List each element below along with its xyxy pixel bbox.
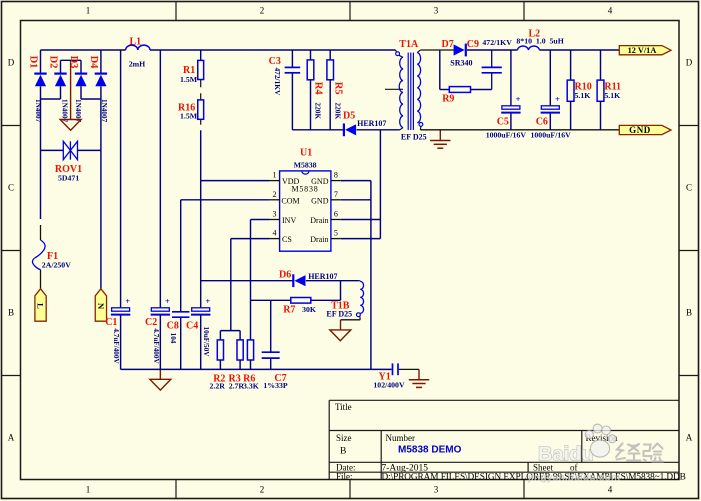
ROV1 value 5D471 [58, 173, 79, 182]
Y1 value 102/400V [373, 380, 405, 389]
wire VDD column to C4 [200, 181, 202, 308]
D2 label [48, 56, 59, 69]
svg-text:5.1K: 5.1K [575, 91, 591, 100]
R7 value 30K [302, 305, 316, 314]
R1 value 1.5M [180, 75, 198, 84]
U1 pin names and part number [281, 177, 328, 244]
R10 value 5.1K [575, 91, 591, 100]
svg-text:C2: C2 [145, 317, 157, 328]
wire secondary top bus [420, 49, 619, 51]
resistor R10 [567, 50, 574, 130]
svg-text:A: A [686, 433, 693, 443]
svg-text:2: 2 [260, 6, 265, 16]
svg-text:D5: D5 [343, 111, 355, 122]
svg-text:2mH: 2mH [129, 59, 145, 68]
D1 value 1N4007 [34, 99, 42, 123]
T1A label [399, 39, 419, 50]
watermark Baidu Jingyan [538, 424, 663, 465]
D3 value 1N4007 [74, 99, 82, 123]
R3 label [229, 374, 241, 385]
U1 pin numbers [273, 171, 338, 238]
C4 value [202, 327, 210, 358]
capacitor C2 [151, 296, 170, 314]
watermark jingyan url [527, 472, 620, 484]
port GND [619, 125, 671, 135]
svg-text:R4: R4 [313, 82, 324, 96]
svg-text:T1A: T1A [399, 39, 419, 50]
svg-text:C5: C5 [497, 116, 509, 127]
svg-text:INV: INV [282, 216, 296, 225]
svg-text:472/1KV: 472/1KV [482, 38, 512, 47]
svg-text:3: 3 [434, 485, 439, 495]
U1 comment M5838 [294, 161, 317, 170]
svg-text:+: + [125, 296, 130, 306]
svg-text:D: D [686, 58, 693, 68]
svg-text:2: 2 [260, 485, 265, 495]
F1 label [47, 251, 58, 262]
R6 label [243, 374, 255, 385]
svg-text:1: 1 [86, 485, 91, 495]
inductor L2 [518, 46, 540, 50]
diode D3 [75, 60, 87, 86]
wire R9 drop [440, 50, 450, 90]
wire CS column [230, 239, 232, 331]
wire C7 column [270, 300, 272, 369]
title block texts [335, 402, 686, 483]
svg-text:GND: GND [311, 196, 329, 205]
D3 label [68, 56, 79, 69]
svg-text:HER107: HER107 [357, 119, 386, 128]
wire R1-R16 link [200, 80, 202, 100]
svg-text:B: B [8, 308, 14, 318]
resistor R5 [327, 50, 334, 130]
svg-text:D1: D1 [28, 56, 39, 69]
svg-text:3: 3 [273, 210, 277, 219]
svg-text:D7: D7 [442, 39, 454, 50]
R4 value 220K [313, 102, 322, 119]
svg-text:M5838 DEMO: M5838 DEMO [398, 445, 462, 456]
capacitor Y1 [393, 363, 399, 375]
L1 value 2mH [129, 59, 145, 68]
svg-text:4.7uF/400V: 4.7uF/400V [152, 328, 160, 364]
svg-text:D: D [8, 58, 15, 68]
svg-text:5.1K: 5.1K [604, 91, 620, 100]
wire C3 column [291, 50, 293, 130]
svg-text:8*10 1.0 5uH: 8*10 1.0 5uH [516, 37, 563, 46]
svg-text:C1: C1 [105, 317, 117, 328]
svg-text:HER107: HER107 [308, 272, 337, 281]
U1 label [300, 148, 312, 159]
wire GND pins 8,7 [341, 181, 371, 200]
port L [35, 289, 46, 321]
wire D2-D3 top [61, 59, 82, 61]
svg-text:1%33P: 1%33P [263, 381, 287, 390]
svg-text:L: L [36, 303, 46, 309]
wire Y1 to earth [399, 368, 419, 370]
resistor R2 [217, 340, 223, 370]
wire VDD pin1 [201, 180, 270, 182]
svg-text:C3: C3 [269, 56, 281, 67]
D7 value SR340 [450, 59, 472, 68]
wire R2 R3 top jog [220, 331, 240, 340]
R9 label [442, 93, 454, 104]
svg-text:1: 1 [86, 6, 91, 16]
resistor R1 [198, 50, 204, 80]
ROV1 label [55, 164, 82, 175]
svg-text:CS: CS [282, 235, 292, 244]
R16 label [178, 102, 195, 113]
wire COM pin2 [181, 199, 270, 201]
C6 value [531, 131, 572, 140]
R6 value 3.3K [243, 382, 259, 391]
svg-text:B: B [686, 308, 692, 318]
svg-text:+: + [516, 94, 521, 104]
port N [95, 289, 106, 321]
D2 value 1N4007 [60, 99, 68, 123]
svg-text:1.5M: 1.5M [180, 75, 198, 84]
R3 value 2.7R [229, 382, 245, 391]
D4 value 1N4007 [100, 99, 108, 123]
svg-text:Size: Size [336, 433, 352, 443]
R11 value 5.1K [604, 91, 620, 100]
wire D6 node to R7 [311, 281, 341, 301]
svg-text:COM: COM [281, 196, 299, 205]
port 12V/1A [619, 46, 671, 55]
wire INV column [250, 220, 252, 340]
svg-text:Number: Number [386, 433, 416, 443]
wire R16 to VDD node [200, 119, 202, 180]
svg-text:C8: C8 [167, 321, 179, 332]
capacitor C9 [482, 50, 502, 90]
L2 value [516, 37, 563, 46]
capacitor C8 [172, 312, 189, 317]
svg-text:10uF/50V: 10uF/50V [202, 327, 210, 358]
wire D6 to T1B top [306, 280, 359, 282]
diode D2 [54, 60, 66, 86]
svg-text:A: A [8, 433, 15, 443]
R5 value 220K [333, 102, 342, 119]
wire CS pin4 [231, 238, 270, 240]
svg-text:220K: 220K [313, 102, 322, 119]
svg-text:+: + [165, 296, 170, 306]
svg-text:D2: D2 [48, 56, 59, 69]
svg-text:jingyan.baidu.com: jingyan.baidu.com [527, 472, 620, 484]
svg-text:12 V/1A: 12 V/1A [628, 46, 657, 55]
wire C2 column [159, 50, 161, 369]
svg-text:M5838: M5838 [294, 161, 317, 170]
svg-text:C6: C6 [536, 116, 548, 127]
L1 label [130, 36, 142, 47]
C9 value 472/1KV [482, 38, 512, 47]
svg-text:Title: Title [335, 402, 352, 412]
earth ground at Y1 [409, 369, 429, 387]
resistor R9 [449, 87, 470, 93]
C3 label [269, 56, 281, 67]
wire C6 column [549, 50, 551, 130]
diode D5 [344, 123, 356, 136]
wire D2 bottom jog [41, 86, 61, 99]
wire D5 to drain node [357, 129, 400, 131]
svg-text:R5: R5 [333, 82, 344, 95]
svg-text:GND: GND [629, 125, 651, 135]
C8 label [167, 321, 179, 332]
svg-text:1.5M: 1.5M [180, 111, 198, 120]
svg-text:D4: D4 [88, 56, 99, 70]
wire ROV1 to fuse [40, 150, 42, 219]
ground arrow bridge center [60, 61, 81, 130]
svg-text:R9: R9 [442, 93, 454, 104]
C2 label [145, 317, 157, 328]
L2 label [529, 29, 541, 40]
transformer T1A [385, 50, 423, 130]
wire D3 bottom jog [81, 86, 101, 99]
svg-text:Baidu: Baidu [538, 444, 594, 466]
R4 label [313, 82, 324, 96]
svg-text:220K: 220K [333, 102, 342, 119]
svg-text:EF D25: EF D25 [326, 309, 352, 318]
R10 label [575, 81, 592, 92]
R11 label [604, 81, 621, 92]
fuse F1 [32, 225, 45, 289]
svg-text:1000uF/16V: 1000uF/16V [531, 131, 572, 140]
wire VDD to D6 [201, 280, 294, 282]
svg-text:5D471: 5D471 [58, 173, 79, 182]
svg-text:4: 4 [608, 485, 613, 495]
wire T1B bottom [341, 319, 361, 321]
F1 value 2A/250V [42, 261, 71, 270]
svg-text:8: 8 [334, 171, 338, 180]
svg-text:B: B [340, 447, 346, 457]
C3 value 472/1KV [273, 67, 282, 96]
svg-text:U1: U1 [300, 148, 312, 159]
svg-text:472/1KV: 472/1KV [273, 67, 282, 96]
capacitor C4 [191, 296, 210, 314]
T1A value EF D25 [401, 133, 427, 142]
wire left column D1 to ROV1 [40, 86, 42, 150]
R5 label [333, 82, 344, 95]
capacitor C1 [111, 296, 130, 314]
earth ground at T1A secondary [430, 130, 450, 148]
svg-text:M5838: M5838 [291, 185, 318, 194]
svg-text:5: 5 [334, 229, 338, 238]
C7 label [274, 373, 286, 384]
Y1 label [379, 372, 391, 383]
diode D7 [454, 44, 466, 57]
svg-text:C9: C9 [467, 39, 479, 50]
wire snubber to D5 [292, 129, 344, 131]
svg-text:4: 4 [608, 6, 613, 16]
C8 value 104 [169, 333, 177, 344]
C1 label [105, 317, 117, 328]
svg-text:4.7uF/400V: 4.7uF/400V [112, 328, 120, 364]
svg-text:6: 6 [334, 210, 338, 219]
diode D4 [95, 50, 107, 86]
D4 label [88, 56, 99, 70]
varistor ROV1 [41, 141, 101, 159]
wire R9 to C9 [471, 89, 492, 91]
D6 value HER107 [308, 272, 337, 281]
C9 label [467, 39, 479, 50]
wire top AC bus [41, 49, 396, 51]
svg-text:EF D25: EF D25 [401, 133, 427, 142]
svg-text:C4: C4 [186, 321, 198, 332]
op-amp U1 M5838 box [280, 171, 331, 251]
svg-text:3.3K: 3.3K [243, 382, 259, 391]
D5 label [343, 111, 355, 122]
D7 label [442, 39, 454, 50]
svg-text:3: 3 [434, 6, 439, 16]
capacitor C6 [541, 94, 560, 112]
title block document name [398, 445, 462, 456]
svg-text:4: 4 [273, 229, 277, 238]
svg-text:2.2R: 2.2R [210, 382, 226, 391]
D6 label [279, 270, 291, 281]
svg-text:102/400V: 102/400V [373, 380, 405, 389]
wire C1 column [120, 50, 122, 369]
svg-text:C: C [8, 183, 14, 193]
svg-text:C: C [686, 183, 692, 193]
transformer T1B winding [357, 281, 364, 320]
capacitor C5 [501, 94, 520, 112]
capacitor C7 [262, 352, 280, 358]
wire drain column [379, 130, 381, 239]
svg-text:D6: D6 [279, 270, 291, 281]
C5 value [486, 131, 527, 140]
svg-text:L1: L1 [130, 36, 142, 47]
wire INV pin3 [251, 219, 270, 221]
svg-text:N: N [96, 303, 106, 310]
ground arrow at T1B [330, 320, 351, 341]
R2 label [213, 374, 225, 385]
inductor L1 [126, 45, 150, 50]
svg-text:30K: 30K [302, 305, 316, 314]
R7 label [283, 304, 295, 315]
wire right column D4 to ROV1 [100, 86, 102, 150]
svg-text:104: 104 [169, 333, 177, 344]
wire secondary bottom to GND bus [420, 129, 619, 131]
svg-text:+: + [205, 296, 210, 306]
wire Drain pins 6,5 [341, 220, 381, 239]
resistor R4 [307, 50, 314, 130]
ground arrow at C2 column [150, 369, 171, 390]
C2 value [152, 328, 160, 364]
svg-text:1000uF/16V: 1000uF/16V [486, 131, 527, 140]
svg-text:SR340: SR340 [450, 59, 472, 68]
resistor R3 [237, 340, 243, 370]
R2 value 2.2R [210, 382, 226, 391]
wire C8 column [180, 200, 182, 370]
svg-text:7: 7 [334, 190, 338, 199]
svg-text:1: 1 [273, 171, 277, 180]
U1 pin leads [270, 181, 341, 239]
svg-text:R7: R7 [283, 304, 295, 315]
resistor R7 [291, 298, 311, 304]
diode D1 [34, 50, 46, 86]
C4 label [186, 321, 198, 332]
title block grid [329, 400, 679, 479]
C1 value [112, 328, 120, 364]
svg-text:Drain: Drain [310, 235, 328, 244]
svg-text:File:: File: [336, 472, 353, 482]
C6 label [536, 116, 548, 127]
D5 value HER107 [357, 119, 386, 128]
wire bottom bus [121, 368, 392, 370]
wire C4 to bottom bus [200, 315, 202, 370]
svg-text:+: + [555, 94, 560, 104]
C5 label [497, 116, 509, 127]
wire N column [100, 150, 102, 288]
C7 value 1%33P [263, 381, 287, 390]
resistor R16 [198, 100, 204, 119]
svg-text:Drain: Drain [310, 216, 328, 225]
T1B value EF D25 [326, 309, 352, 318]
svg-text:2A/250V: 2A/250V [42, 261, 71, 270]
diode D6 [293, 274, 305, 287]
D1 label [28, 56, 39, 69]
svg-text:D3: D3 [68, 56, 79, 69]
resistor R11 [597, 50, 604, 130]
wire GND column to bottom bus [370, 181, 372, 370]
R1 label [183, 65, 195, 76]
svg-text:2: 2 [273, 190, 277, 199]
wire C5 column [510, 50, 512, 130]
resistor R6 [247, 340, 253, 370]
T1B label [331, 301, 350, 312]
capacitor C3 [285, 67, 301, 72]
R16 value 1.5M [180, 111, 198, 120]
wire R7 to INV column [251, 299, 291, 301]
